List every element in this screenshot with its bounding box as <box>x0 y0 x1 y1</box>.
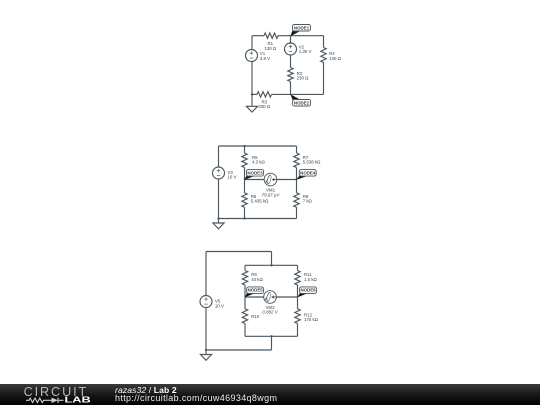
svg-text:7 kΩ: 7 kΩ <box>303 199 313 204</box>
ground 1 <box>246 94 257 112</box>
wire: top rail to R5 <box>244 146 246 153</box>
wire: left branch down to V3 <box>218 146 220 167</box>
node NODE2 flag <box>290 94 310 106</box>
svg-text:79.67 μV: 79.67 μV <box>262 192 281 197</box>
resistor R4 <box>321 48 342 63</box>
CircuitLab logo resistor+diode squiggle <box>26 398 64 403</box>
wire: left branch down to V1 <box>251 36 253 50</box>
svg-text:1.5 kΩ: 1.5 kΩ <box>304 277 318 282</box>
svg-text:5.435 kΩ: 5.435 kΩ <box>251 199 269 204</box>
wire: NODE3 junction to R6 <box>244 180 246 193</box>
svg-text:NODE2: NODE2 <box>294 100 310 105</box>
svg-text:NODE4: NODE4 <box>300 170 316 175</box>
junction: connector / inner top rail <box>270 264 272 266</box>
wire: inner top to R9 <box>244 265 246 270</box>
resistor R11 <box>295 271 318 286</box>
svg-text:0.892 V: 0.892 V <box>262 310 278 315</box>
wire: R7 to NODE4 junction <box>296 168 298 180</box>
junction: V1- / R3 / ground <box>251 93 253 95</box>
resistor R1 <box>264 33 278 51</box>
wire: outer left down to V5 <box>205 252 207 296</box>
ground 3 <box>200 350 211 360</box>
resistor R12 <box>295 309 319 324</box>
wire: top-left to R1 <box>252 35 264 37</box>
svg-text:130 Ω: 130 Ω <box>264 46 277 51</box>
wire: VM2 to NODE6 junction <box>276 296 297 298</box>
svg-text:10 V: 10 V <box>227 175 236 180</box>
node NODE4 flag <box>296 170 316 180</box>
wire: NODE5 junction to R10 <box>244 297 246 309</box>
svg-text:230 Ω: 230 Ω <box>297 76 310 81</box>
wire: NODE1 junction to V2 <box>290 36 292 43</box>
svg-text:LAB: LAB <box>65 395 91 405</box>
wire: R3 to NODE2 junction <box>272 93 291 95</box>
junction: connector / inner bottom rail <box>270 335 272 337</box>
wire: R9 to NODE5 junction <box>244 285 246 297</box>
voltage source V2 <box>285 43 312 55</box>
resistor R10 <box>242 309 260 324</box>
wire: V1 to bottom-left junction <box>251 62 253 95</box>
voltage source V1 <box>246 50 271 62</box>
svg-text:330 Ω: 330 Ω <box>258 104 271 109</box>
svg-text:4.3 kΩ: 4.3 kΩ <box>252 160 266 165</box>
wire: top-right down to R4 <box>323 36 325 48</box>
wire: R11 to NODE6 junction <box>297 285 299 297</box>
wire: R1 to NODE1 junction <box>278 35 291 37</box>
svg-text:NODE6: NODE6 <box>300 288 316 293</box>
wire: circuit3 outer top rail <box>206 251 272 253</box>
wire: R6 to bottom rail <box>244 207 246 218</box>
wire: circuit2 top rail <box>219 145 297 147</box>
voltage source V5 <box>200 296 224 309</box>
wire: NODE2 junction to bottom-right corner <box>291 93 324 95</box>
junction: V3- / ground <box>217 217 219 219</box>
wire: top rail to R7 <box>296 146 298 153</box>
resistor R9 <box>242 271 263 286</box>
svg-text:NODE3: NODE3 <box>247 170 263 175</box>
svg-text:3.8 V: 3.8 V <box>260 56 270 61</box>
svg-text:10 V: 10 V <box>215 303 224 308</box>
svg-text:R10: R10 <box>251 314 260 319</box>
junction: top rail / R5 <box>243 145 245 147</box>
voltmeter VM2 <box>262 291 278 315</box>
wire: R2 to NODE2 junction <box>290 82 292 95</box>
wire: NODE1 junction to right branch <box>291 35 324 37</box>
svg-text:1.30 V: 1.30 V <box>299 49 312 54</box>
wire: V5 to outer bottom rail <box>205 308 207 350</box>
wire: outer top to inner top connector <box>271 252 273 266</box>
ground 2 <box>213 219 224 229</box>
node NODE5 flag <box>245 287 264 298</box>
svg-text:5.538 kΩ: 5.538 kΩ <box>303 160 321 165</box>
resistor R7 <box>294 153 321 168</box>
resistor R8 <box>294 193 313 207</box>
wire: R12 to inner bottom rail <box>297 324 299 337</box>
junction: V5- / ground <box>205 349 207 351</box>
voltmeter VM1 <box>262 173 281 197</box>
wire: R4 down to bottom-right corner <box>323 63 325 95</box>
wire: NODE4 junction to R8 <box>296 180 298 193</box>
wire: circuit3 inner top rail <box>245 264 298 266</box>
wire: NODE5 junction to VM2 <box>245 296 264 298</box>
wire: NODE3 junction to VM1 <box>245 179 265 181</box>
resistor R2 <box>288 68 309 82</box>
wire: bottom-left junction to R3 <box>252 93 257 95</box>
voltage source V3 <box>213 167 237 180</box>
wire: circuit3 outer bottom rail <box>206 349 272 351</box>
footer bar <box>0 384 540 405</box>
svg-text:NODE5: NODE5 <box>248 288 264 293</box>
node NODE3 flag <box>244 170 263 180</box>
node NODE6 flag <box>297 287 316 298</box>
wire: R10 to inner bottom rail <box>244 324 246 337</box>
wire: V2 to R2 <box>290 55 292 68</box>
resistor R5 <box>242 153 266 168</box>
wire: R5 to NODE3 junction <box>244 168 246 180</box>
junction: bottom rail / R6 <box>243 217 245 219</box>
wire: inner top to R11 <box>297 265 299 270</box>
wire: VM1 to NODE4 junction <box>277 179 297 181</box>
wire: V3 to bottom rail <box>218 179 220 219</box>
node NODE1 flag <box>290 25 310 37</box>
svg-text:130 Ω: 130 Ω <box>329 56 342 61</box>
svg-text:44 kΩ: 44 kΩ <box>251 277 263 282</box>
resistor R3 <box>257 92 272 110</box>
wire: circuit3 inner bottom rail <box>245 335 298 337</box>
wire: inner bottom to outer bottom connector <box>271 336 273 350</box>
resistor R6 <box>242 193 269 207</box>
wire: NODE6 junction to R12 <box>297 297 299 309</box>
svg-text:NODE1: NODE1 <box>294 25 310 30</box>
wire: R8 to bottom rail <box>296 207 298 218</box>
wire: circuit2 bottom rail <box>219 218 297 220</box>
svg-text:175 kΩ: 175 kΩ <box>304 317 319 322</box>
